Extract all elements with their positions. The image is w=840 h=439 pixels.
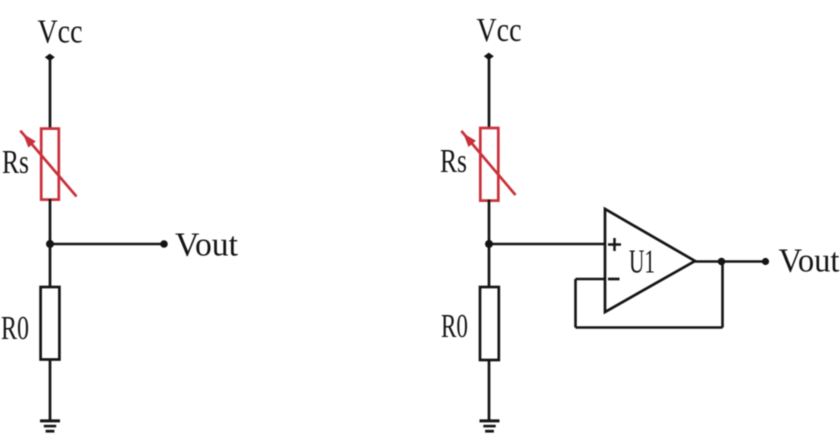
op-amp + input marker bbox=[608, 238, 621, 251]
Vcc terminal dot (left) bbox=[45, 54, 55, 61]
Rs variable-arrow (left) bbox=[20, 131, 76, 197]
svg-text:U1: U1 bbox=[629, 244, 655, 281]
feedback wire bottom horizontal bbox=[576, 326, 723, 329]
svg-text:R0: R0 bbox=[441, 308, 468, 345]
Rs variable-arrow (right) bbox=[461, 131, 515, 195]
photoresistor Rs body (right) bbox=[480, 128, 498, 201]
wire Rs to R0 (right) bbox=[488, 200, 491, 289]
svg-text:Rs: Rs bbox=[440, 143, 467, 180]
wire minus input stub bbox=[576, 278, 605, 281]
svg-text:R0: R0 bbox=[1, 310, 29, 347]
svg-text:Vout: Vout bbox=[175, 227, 239, 264]
wire R0 to ground (left) bbox=[49, 359, 52, 421]
op-amp minus input marker bbox=[608, 278, 620, 281]
resistor R0 body (right) bbox=[480, 287, 499, 360]
svg-text:Vout: Vout bbox=[779, 243, 840, 280]
Vout terminal dot (left) bbox=[160, 240, 168, 248]
svg-text:Vcc: Vcc bbox=[477, 12, 522, 49]
svg-text:Vcc: Vcc bbox=[38, 14, 83, 51]
wire Rs to R0 (left) bbox=[49, 199, 52, 288]
wire R0 to ground (right) bbox=[488, 360, 491, 421]
resistor R0 body (left) bbox=[41, 287, 60, 360]
ground symbol (left) bbox=[40, 421, 60, 431]
op-amp U1 triangle bbox=[605, 209, 695, 312]
svg-text:Rs: Rs bbox=[2, 144, 29, 181]
feedback wire right vertical bbox=[721, 262, 724, 328]
Vout terminal dot (right) bbox=[762, 258, 769, 265]
wire op-amp output to Vout bbox=[695, 260, 766, 263]
wire Vcc to Rs (right) bbox=[488, 56, 491, 130]
wire node to op-amp + input (right) bbox=[489, 243, 605, 246]
Vcc terminal dot (right) bbox=[484, 53, 494, 60]
wire node to Vout terminal (left) bbox=[50, 243, 164, 246]
ground symbol (right) bbox=[480, 421, 500, 431]
node output junction bbox=[718, 258, 726, 266]
node junction (left) bbox=[46, 240, 54, 248]
node junction (right) bbox=[485, 240, 493, 248]
photoresistor Rs body (left) bbox=[41, 129, 59, 200]
wire Vcc to Rs (left) bbox=[49, 57, 52, 130]
feedback wire left vertical bbox=[574, 279, 577, 328]
